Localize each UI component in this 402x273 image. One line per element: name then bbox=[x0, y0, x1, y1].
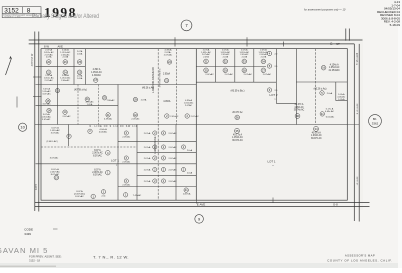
svg-text:1.051± AC: 1.051± AC bbox=[329, 66, 340, 69]
svg-text:40: 40 bbox=[296, 114, 300, 118]
svg-text:10: 10 bbox=[20, 125, 25, 130]
svg-text:8 W: 8 W bbox=[44, 44, 49, 48]
svg-text:39.97± AC: 39.97± AC bbox=[311, 137, 322, 140]
svg-text:2.07±AC: 2.07±AC bbox=[164, 53, 173, 56]
svg-text:36: 36 bbox=[236, 115, 239, 119]
svg-text:2.07A: 2.07A bbox=[261, 55, 267, 58]
svg-text:1.05±AC: 1.05±AC bbox=[42, 90, 51, 93]
svg-text:2.07±AC: 2.07±AC bbox=[62, 115, 71, 118]
svg-text:5-18-09: 5-18-09 bbox=[390, 23, 401, 27]
svg-text:BK.: BK. bbox=[373, 117, 377, 121]
svg-text:8.07±AC: 8.07±AC bbox=[93, 174, 102, 177]
svg-text:2.07±AC: 2.07±AC bbox=[122, 136, 130, 139]
svg-text:2.07±AC: 2.07±AC bbox=[170, 115, 179, 118]
svg-text:20: 20 bbox=[47, 60, 50, 64]
svg-text:40.07± A: 40.07± A bbox=[312, 131, 322, 134]
svg-text:E AVE: E AVE bbox=[197, 202, 205, 206]
svg-text:4.04±AC: 4.04±AC bbox=[99, 131, 108, 134]
svg-text:2.07±AC: 2.07±AC bbox=[168, 168, 177, 171]
svg-text:3362: 3362 bbox=[372, 121, 379, 125]
svg-text:7.08±AC: 7.08±AC bbox=[106, 99, 115, 102]
svg-text:90TH ST. E: 90TH ST. E bbox=[355, 53, 358, 66]
svg-text:4.39±A: 4.39±A bbox=[163, 100, 171, 103]
svg-text:4.09± AC: 4.09± AC bbox=[325, 110, 334, 113]
svg-text:30: 30 bbox=[205, 68, 208, 72]
svg-text:2.0±A: 2.0±A bbox=[187, 172, 193, 175]
svg-text:2.07±AC: 2.07±AC bbox=[168, 146, 177, 149]
svg-text:26: 26 bbox=[64, 60, 67, 64]
svg-text:3439: 3439 bbox=[24, 232, 31, 236]
svg-text:2.06±AC: 2.06±AC bbox=[61, 79, 70, 82]
svg-text:33: 33 bbox=[243, 59, 246, 63]
svg-text:1.051±AC: 1.051±AC bbox=[41, 116, 51, 119]
svg-text:3.07±AC: 3.07±AC bbox=[42, 118, 51, 121]
svg-text:8.07 A: 8.07 A bbox=[94, 168, 101, 171]
svg-text:2.067±AC: 2.067±AC bbox=[50, 170, 60, 173]
svg-text:39.97± AC: 39.97± AC bbox=[232, 139, 243, 142]
svg-text:8.07 A: 8.07 A bbox=[76, 190, 83, 193]
svg-text:LOT 2: LOT 2 bbox=[270, 93, 278, 97]
svg-text:27: 27 bbox=[262, 68, 265, 72]
svg-text:2.07A: 2.07A bbox=[141, 98, 147, 101]
svg-text:AVE: AVE bbox=[58, 44, 64, 48]
svg-text:4.04± A: 4.04± A bbox=[99, 128, 107, 131]
svg-text:2.07±AC: 2.07±AC bbox=[191, 115, 200, 118]
svg-text:2.07A: 2.07A bbox=[62, 56, 68, 59]
svg-text:34: 34 bbox=[314, 127, 318, 131]
svg-text:13: 13 bbox=[55, 176, 58, 180]
svg-text:20.07± Ac: 20.07± Ac bbox=[232, 111, 243, 114]
svg-text:2.0±A: 2.0±A bbox=[187, 149, 193, 152]
svg-text:2.07AC: 2.07AC bbox=[185, 104, 193, 107]
svg-text:3152 - 18: 3152 - 18 bbox=[29, 258, 41, 262]
svg-text:8.07±AC: 8.07±AC bbox=[75, 195, 84, 198]
svg-text:39.74± AC: 39.74± AC bbox=[294, 108, 305, 111]
svg-text:ST: ST bbox=[336, 42, 340, 46]
svg-text:1.034± AC: 1.034± AC bbox=[311, 134, 322, 137]
svg-text:40.17± A: 40.17± A bbox=[233, 133, 243, 136]
svg-text:2.07±AC: 2.07±AC bbox=[122, 184, 130, 187]
svg-text:23: 23 bbox=[78, 70, 81, 74]
svg-text:3.07±AC: 3.07±AC bbox=[51, 132, 60, 135]
svg-text:25: 25 bbox=[78, 60, 81, 64]
svg-text:4.39±AC: 4.39±AC bbox=[92, 74, 101, 77]
svg-text:FOR PREV. ASSMT. SEE:: FOR PREV. ASSMT. SEE: bbox=[29, 255, 62, 259]
svg-text:1.051± AC: 1.051± AC bbox=[232, 136, 243, 139]
svg-text:4.39± AC: 4.39± AC bbox=[294, 106, 304, 109]
svg-text:6.01±AC: 6.01±AC bbox=[326, 116, 335, 119]
svg-text:2.07±AC: 2.07±AC bbox=[205, 73, 214, 76]
svg-text:8.07±AC: 8.07±AC bbox=[93, 154, 102, 157]
svg-text:ASSESSOR'S MAP: ASSESSOR'S MAP bbox=[345, 253, 375, 257]
svg-text:28: 28 bbox=[243, 68, 246, 72]
svg-text:1.05±A: 1.05±A bbox=[338, 98, 345, 101]
svg-text:2.07±AC: 2.07±AC bbox=[168, 132, 177, 135]
svg-text:90TH ST: 90TH ST bbox=[355, 177, 357, 186]
svg-text:2.067±A: 2.067±A bbox=[183, 193, 191, 196]
svg-text:2.07±AC: 2.07±AC bbox=[168, 180, 177, 183]
svg-text:17: 17 bbox=[94, 78, 98, 82]
svg-text:3.07±A: 3.07±A bbox=[43, 87, 50, 90]
svg-text:24: 24 bbox=[64, 70, 67, 74]
svg-text:1.05A: 1.05A bbox=[77, 77, 83, 80]
svg-text:2.07±AC: 2.07±AC bbox=[225, 73, 234, 76]
svg-text:20.67± A: 20.67± A bbox=[295, 103, 304, 106]
svg-text:Partially Staged and/or Altere: Partially Staged and/or Altered bbox=[32, 13, 99, 20]
svg-text:2.067± AC: 2.067± AC bbox=[92, 171, 103, 174]
svg-text:1.051±AC: 1.051±AC bbox=[50, 129, 60, 132]
svg-text:34: 34 bbox=[262, 59, 265, 63]
svg-text:16: 16 bbox=[322, 66, 325, 70]
svg-text:40TH ST W: 40TH ST W bbox=[31, 53, 34, 66]
svg-text:8.07 A: 8.07 A bbox=[94, 149, 101, 152]
svg-text:(FUTURE STREET): (FUTURE STREET) bbox=[160, 68, 162, 87]
svg-text:(2.067±AC): (2.067±AC) bbox=[74, 193, 85, 196]
svg-text:90TH ST E: 90TH ST E bbox=[355, 104, 357, 115]
svg-text:L ADDISON AVENUE RD: L ADDISON AVENUE RD bbox=[152, 67, 155, 93]
svg-text:2.07±A: 2.07±A bbox=[144, 180, 151, 183]
svg-text:2.07±AC: 2.07±AC bbox=[45, 79, 54, 82]
svg-text:2.07±AC: 2.07±AC bbox=[263, 73, 272, 76]
svg-text:2.07A: 2.07A bbox=[223, 55, 229, 58]
svg-text:8.07± A: 8.07± A bbox=[51, 168, 59, 171]
svg-text:2.07A: 2.07A bbox=[203, 55, 209, 58]
svg-text:40TH: 40TH bbox=[35, 184, 38, 190]
svg-text:2.07±A: 2.07±A bbox=[144, 146, 151, 149]
svg-text:(43.39 ± Bo.): (43.39 ± Bo.) bbox=[231, 89, 245, 92]
svg-text:1.05A: 1.05A bbox=[87, 103, 93, 106]
svg-text:3.07±AC: 3.07±AC bbox=[50, 157, 59, 160]
svg-text:21.354±AC: 21.354±AC bbox=[329, 69, 341, 72]
svg-text:2.07±A: 2.07±A bbox=[144, 168, 151, 171]
svg-text:N. LINE OF S 1/2 OF SW 1/4: N. LINE OF S 1/2 OF SW 1/4 bbox=[89, 126, 137, 128]
svg-text:4.39± A: 4.39± A bbox=[93, 68, 101, 71]
svg-text:2.07±AC: 2.07±AC bbox=[131, 118, 140, 121]
svg-text:G-8: G-8 bbox=[333, 203, 338, 207]
svg-text:COUNTY OF LOS ANGELES, CALIF.: COUNTY OF LOS ANGELES, CALIF. bbox=[327, 258, 393, 262]
svg-text:2.07±AC: 2.07±AC bbox=[122, 161, 130, 164]
svg-text:7.47±AC: 7.47±AC bbox=[133, 194, 142, 197]
svg-text:4.39±AC: 4.39±AC bbox=[104, 118, 113, 121]
svg-text:for assessment purposes only —: for assessment purposes only — 10 bbox=[304, 8, 346, 12]
svg-text:21: 21 bbox=[47, 70, 50, 74]
svg-text:3.07± A: 3.07± A bbox=[51, 126, 59, 129]
svg-text:4.134± A: 4.134± A bbox=[330, 64, 339, 67]
svg-text:1.051± AC: 1.051± AC bbox=[91, 71, 102, 74]
svg-text:31: 31 bbox=[205, 59, 208, 63]
svg-text:1.05A: 1.05A bbox=[77, 52, 83, 55]
svg-text:5.17± A: 5.17± A bbox=[326, 107, 334, 110]
svg-text:3.07±AC: 3.07±AC bbox=[42, 93, 51, 96]
svg-text:LOT 1: LOT 1 bbox=[111, 159, 119, 163]
svg-text:29: 29 bbox=[224, 68, 227, 72]
svg-text:3.07±AC: 3.07±AC bbox=[42, 103, 51, 106]
svg-text:(2.067± AC): (2.067± AC) bbox=[46, 140, 57, 143]
svg-text:2.07±AC: 2.07±AC bbox=[244, 73, 253, 76]
svg-text:T. 7 N., R. 12 W.: T. 7 N., R. 12 W. bbox=[93, 255, 129, 260]
svg-text:2.07±A: 2.07±A bbox=[144, 157, 151, 160]
svg-text:2.07A: 2.07A bbox=[242, 55, 248, 58]
svg-text:3.07±A: 3.07±A bbox=[43, 113, 50, 116]
svg-text:2.07±AC: 2.07±AC bbox=[168, 157, 177, 160]
svg-text:35: 35 bbox=[235, 129, 239, 133]
svg-text:LOT 1: LOT 1 bbox=[268, 159, 276, 163]
svg-text:32: 32 bbox=[224, 59, 227, 63]
svg-text:2.07A: 2.07A bbox=[46, 56, 52, 59]
svg-text:2.067± AC: 2.067± AC bbox=[92, 152, 103, 155]
svg-text:(43.39 ± Ac): (43.39 ± Ac) bbox=[74, 89, 87, 92]
svg-text:2.07±A: 2.07±A bbox=[144, 132, 151, 135]
svg-text:2.0±A: 2.0±A bbox=[327, 92, 333, 95]
svg-text:(40.26 ± Ac): (40.26 ± Ac) bbox=[314, 88, 327, 91]
svg-text:2.05±A: 2.05±A bbox=[163, 73, 171, 76]
